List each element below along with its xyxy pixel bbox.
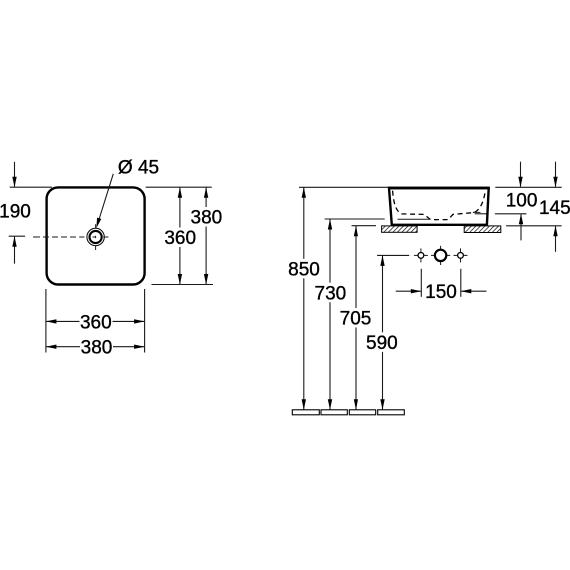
svg-text:100: 100: [506, 190, 538, 211]
dimension 150: right extension line: [460, 269, 462, 297]
dimension 145: bottom arrow: [555, 226, 557, 251]
floor bar 4: [378, 410, 405, 415]
leader line for diameter label: [99, 174, 114, 221]
svg-text:190: 190: [0, 202, 31, 223]
dimension 190: top arrow: [14, 162, 16, 187]
dimension 380 horizontal (below square): [46, 346, 145, 348]
svg-text:145: 145: [539, 198, 570, 219]
drain centerline horizontal (dash-dot): [33, 236, 108, 238]
dimension 360 horizontal (below square): [46, 320, 145, 322]
faucet hole right: [454, 254, 468, 256]
extension line: basin top right segment: [495, 186, 561, 188]
svg-text:380: 380: [81, 338, 113, 359]
dimension 380 vertical (right of square): [205, 187, 207, 284]
svg-text:360: 360: [80, 312, 112, 333]
extension line 100 (inside + outside basin): [475, 213, 487, 215]
dimension 190: bottom arrow: [14, 237, 16, 264]
svg-text:730: 730: [315, 283, 347, 304]
faucet hole left: [414, 254, 428, 256]
svg-text:590: 590: [366, 333, 398, 354]
dimension 590 vertical line: [382, 255, 384, 409]
inner basin short solid segment right: [473, 211, 481, 213]
dimension 150: left tail + arrow: [396, 290, 421, 292]
dimension 150: right tail + arrow: [461, 290, 486, 292]
floor bar 3: [349, 410, 375, 415]
extension line: top edge (y=187.2) left of square: [10, 186, 52, 188]
dimension 145: top arrow: [555, 162, 557, 187]
leader arrowhead: [96, 218, 101, 229]
extension line: bottom edge right of square: [152, 284, 214, 286]
drain inner circle: [90, 231, 102, 243]
extension line: top edge right of square: [146, 186, 212, 188]
extension line 590 (faucet hole axis): [377, 254, 409, 256]
svg-text:150: 150: [425, 282, 457, 303]
svg-text:Ø 45: Ø 45: [118, 157, 159, 178]
dimension 150: left extension line: [420, 269, 422, 297]
floor bar 2: [321, 410, 347, 415]
inner basin solid line near bottom left: [398, 218, 430, 220]
mounting pad left (hatched): [382, 226, 418, 232]
dimension 100: bottom arrow: [520, 214, 522, 240]
dimension 190: bottom extension line: [9, 235, 25, 237]
dimension 360 vertical (right of square): [179, 187, 181, 284]
extension line 705 (basin bottom): [352, 225, 377, 227]
dimension 100: top arrow: [520, 162, 522, 187]
drain centerline vertical (dash-dot): [95, 224, 97, 250]
inner basin dashed bowl outline: [393, 191, 486, 220]
dimension 730 vertical line: [329, 219, 331, 410]
mounting pad right (hatched): [464, 226, 501, 233]
svg-text:380: 380: [191, 208, 223, 229]
basin outline (rounded square, top view): [47, 187, 145, 284]
extension line: basin top left segment: [299, 186, 389, 188]
svg-text:850: 850: [288, 259, 320, 280]
floor bar 1: [292, 410, 319, 415]
extension line below square left: [45, 289, 47, 353]
extension line 145 (basin underside): [506, 225, 561, 227]
basin body outline (side view): [389, 188, 489, 225]
extension line below square right: [144, 289, 146, 353]
svg-text:705: 705: [340, 309, 372, 330]
svg-text:360: 360: [164, 228, 196, 249]
dimension 850 vertical line: [303, 187, 305, 409]
extension line 730 (inner rim): [325, 218, 385, 220]
drain hole center: [431, 254, 450, 256]
drain outer circle: [87, 228, 104, 245]
dimension 705 vertical line: [355, 226, 357, 410]
